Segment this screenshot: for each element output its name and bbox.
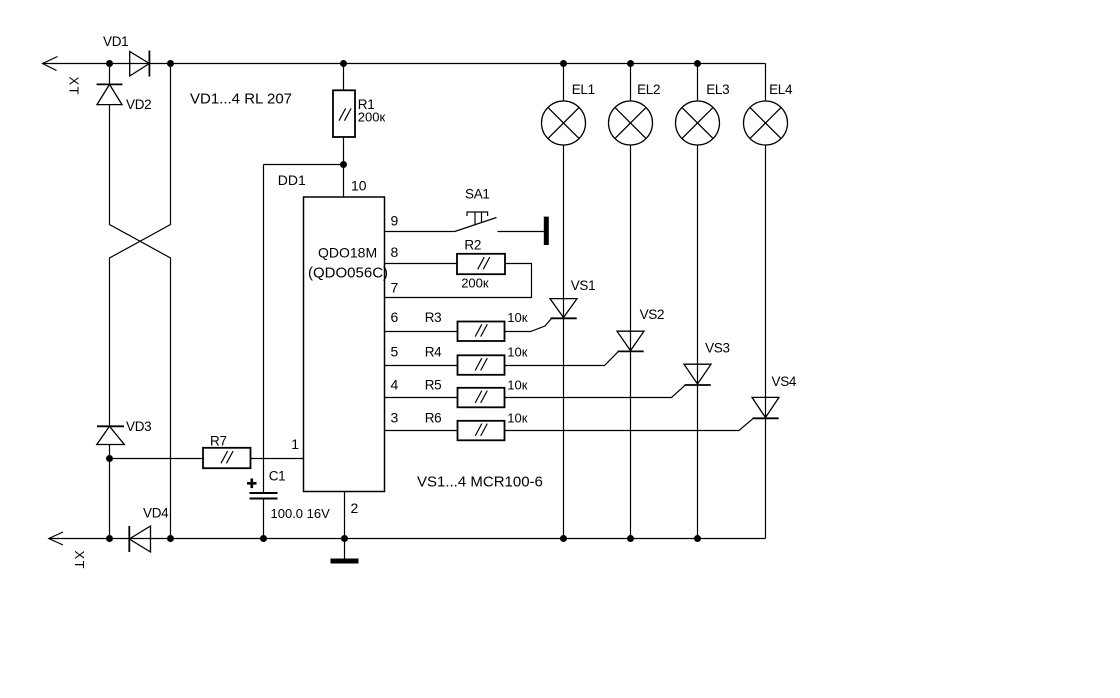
svg-text:10к: 10к: [507, 310, 527, 325]
resistor R3: [458, 322, 505, 342]
diode VD2: [97, 84, 123, 104]
svg-text:7: 7: [391, 279, 399, 295]
wire R4 to VS2 gate: [505, 352, 619, 366]
wire R3 to VS1 gate: [505, 319, 552, 332]
lamp EL2: [609, 64, 653, 539]
wire pin 3: [385, 430, 458, 432]
lamp EL3: [676, 64, 720, 539]
node junction pin2 bottom rail: [341, 535, 348, 542]
lamp EL1: [542, 64, 586, 539]
svg-text:VS1...4 MCR100-6: VS1...4 MCR100-6: [417, 474, 543, 491]
ground: [331, 539, 359, 564]
svg-text:10: 10: [351, 178, 367, 194]
wire x170 down and cross to x109: [110, 64, 171, 427]
node junction C1 bottom rail: [260, 535, 267, 542]
node junction top rail EL1: [560, 60, 567, 67]
op-amp U1 IC DD1 box QDO18M: [304, 197, 385, 492]
wire pin 1 from R7: [110, 458, 304, 460]
node junction top rail x170: [167, 60, 174, 67]
node junction bottom rail EL2: [627, 535, 634, 542]
wire bottom rail: [49, 538, 766, 540]
svg-text:10к: 10к: [507, 345, 527, 360]
switch SA1: [455, 212, 544, 232]
svg-text:R7: R7: [210, 434, 227, 449]
svg-text:VD3: VD3: [126, 419, 151, 434]
svg-text:R2: R2: [464, 238, 481, 253]
svg-text:EL4: EL4: [769, 82, 793, 97]
wire top rail XT to EL4: [43, 63, 766, 65]
svg-text:DD1: DD1: [278, 172, 306, 188]
svg-text:VD1...4 RL 207: VD1...4 RL 207: [190, 91, 292, 108]
wire pin 2 stub: [344, 492, 346, 539]
wire pin 9: [385, 231, 455, 233]
wire pin 4: [385, 397, 458, 399]
svg-text:(QDO056C): (QDO056C): [308, 265, 388, 282]
resistor R6: [458, 421, 505, 441]
node junction top rail R1: [340, 60, 347, 67]
svg-text:10к: 10к: [507, 378, 527, 393]
node junction bottom x170: [167, 535, 174, 542]
svg-text:VS2: VS2: [640, 307, 665, 322]
thyristor VS1: [550, 299, 577, 319]
wire VD3 to bottom rail: [109, 445, 111, 539]
wire pin10 stub: [343, 165, 345, 198]
node junction bottom x109: [106, 535, 113, 542]
wire R6 to VS4 gate: [505, 419, 754, 431]
svg-text:VD4: VD4: [143, 506, 169, 521]
svg-text:VD2: VD2: [126, 97, 151, 112]
wire DD1 left vertical: [263, 165, 265, 494]
thyristor VS4: [752, 397, 779, 418]
wire R1 bottom to DD1 branch: [264, 164, 344, 166]
terminal arrow XT bottom: [49, 532, 63, 545]
thyristor VS2: [617, 331, 644, 351]
node junction R1 bottom: [340, 161, 347, 168]
svg-text:VS3: VS3: [705, 340, 730, 355]
resistor R4: [458, 355, 505, 375]
wire R5 to VS3 gate: [505, 385, 686, 397]
svg-text:4: 4: [391, 377, 399, 393]
svg-text:10к: 10к: [507, 411, 527, 426]
node junction x109 y458: [106, 455, 113, 462]
node junction top rail EL3: [694, 60, 701, 67]
svg-text:EL3: EL3: [706, 82, 729, 97]
node junction top rail EL2: [627, 60, 634, 67]
capacitor C1: [250, 493, 278, 539]
wire left branch down to VD2: [109, 64, 111, 85]
svg-text:VS4: VS4: [772, 374, 797, 389]
svg-text:R4: R4: [425, 345, 442, 360]
label C1 plus: [247, 479, 257, 489]
svg-text:1: 1: [291, 436, 299, 452]
svg-text:2: 2: [351, 500, 359, 516]
svg-text:XT: XT: [67, 77, 82, 97]
resistor R2: [457, 254, 505, 274]
wire pin 8: [385, 263, 457, 265]
wire VD2 down and cross to x170: [110, 105, 171, 539]
diode VD1: [130, 51, 150, 77]
node junction top rail x109: [106, 60, 113, 67]
svg-text:XT: XT: [72, 551, 87, 571]
svg-text:EL2: EL2: [637, 82, 660, 97]
svg-text:R3: R3: [425, 310, 442, 325]
node junction bottom rail EL1: [560, 535, 567, 542]
svg-text:QDO18M: QDO18M: [318, 245, 377, 261]
node junction bottom rail EL3: [694, 535, 701, 542]
svg-text:9: 9: [391, 212, 399, 228]
svg-text:8: 8: [391, 244, 399, 260]
resistor R1: [333, 64, 355, 165]
svg-text:C1: C1: [269, 469, 286, 484]
thyristor VS3: [684, 364, 711, 385]
svg-text:VD1: VD1: [103, 34, 128, 49]
svg-text:6: 6: [391, 309, 399, 325]
switch SA1 contact bar: [544, 217, 549, 245]
svg-text:100.0 16V: 100.0 16V: [271, 506, 331, 521]
svg-text:5: 5: [391, 344, 399, 360]
svg-text:VS1: VS1: [571, 278, 596, 293]
svg-text:200к: 200к: [461, 276, 489, 291]
resistor R5: [458, 388, 505, 408]
svg-text:3: 3: [391, 410, 399, 426]
wire pin 5: [385, 365, 458, 367]
wire R2 right loop to pin 7: [385, 264, 532, 298]
diode VD3: [97, 426, 125, 444]
svg-text:SA1: SA1: [465, 187, 490, 202]
wire pin 6: [385, 331, 458, 333]
svg-text:EL1: EL1: [572, 82, 595, 97]
lamp EL4: [744, 64, 788, 539]
diode VD4: [129, 526, 150, 552]
svg-text:R5: R5: [425, 378, 442, 393]
svg-text:R6: R6: [425, 411, 442, 426]
svg-text:200к: 200к: [358, 110, 386, 125]
terminal arrow XT top: [43, 57, 58, 71]
resistor R7: [203, 448, 251, 468]
